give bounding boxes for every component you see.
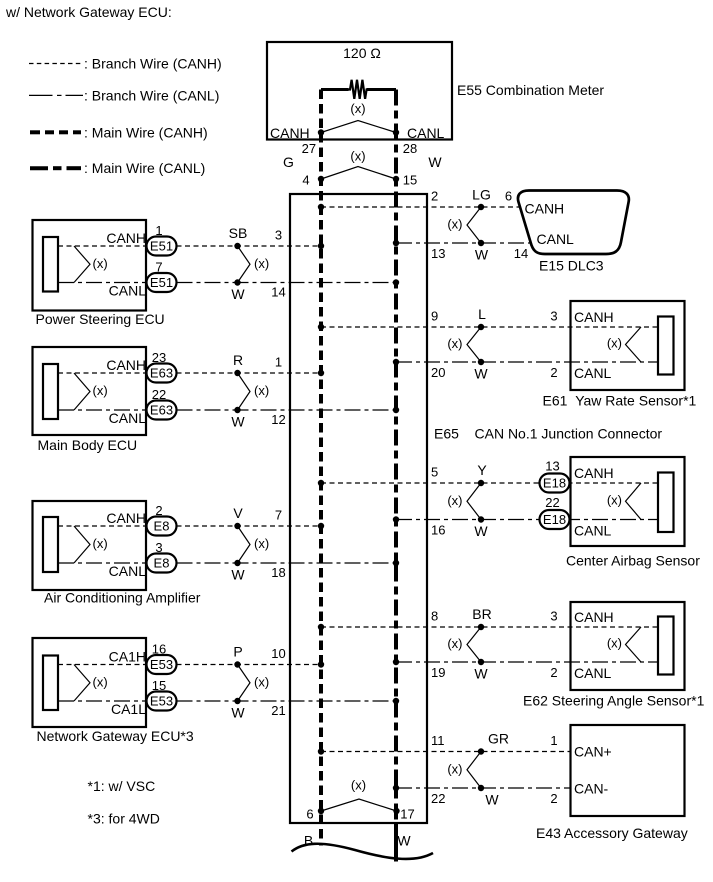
svg-text:28: 28 bbox=[403, 141, 417, 156]
svg-text:15: 15 bbox=[403, 172, 417, 187]
svg-text:W: W bbox=[231, 705, 245, 721]
Center Airbag Sensor box bbox=[571, 457, 685, 546]
svg-text:Power Steering ECU: Power Steering ECU bbox=[36, 311, 165, 327]
svg-text:W: W bbox=[428, 154, 442, 170]
node junction pin 3 bbox=[318, 243, 324, 249]
svg-text:CANH: CANH bbox=[525, 201, 565, 217]
svg-text:LG: LG bbox=[472, 187, 491, 203]
branch wire CAN- junction to Accessory Gateway bbox=[396, 787, 570, 789]
svg-text:*1: w/ VSC: *1: w/ VSC bbox=[88, 778, 156, 794]
splice (x) Steering Angle Sensor branch bbox=[447, 624, 484, 665]
svg-text:E61 Yaw Rate Sensor*1: E61 Yaw Rate Sensor*1 bbox=[543, 393, 697, 409]
E15 DLC3 connector shape bbox=[518, 191, 629, 255]
svg-text:CANL: CANL bbox=[574, 665, 612, 681]
svg-text:3: 3 bbox=[275, 228, 282, 243]
svg-text:CANL: CANL bbox=[109, 563, 147, 579]
svg-text:*3: for 4WD: *3: for 4WD bbox=[88, 811, 160, 827]
svg-text:13: 13 bbox=[545, 459, 559, 474]
branch wire CANL Main Body ECU to junction bbox=[177, 409, 397, 411]
node junction pin 11 bbox=[318, 748, 324, 754]
svg-text:W: W bbox=[231, 414, 245, 430]
svg-text:(x): (x) bbox=[350, 149, 365, 164]
svg-text:SB: SB bbox=[229, 225, 248, 241]
splice (x) DLC3 branch bbox=[447, 204, 484, 246]
svg-text:(x): (x) bbox=[607, 636, 622, 651]
svg-text:(x): (x) bbox=[93, 383, 108, 398]
svg-text:(x): (x) bbox=[607, 336, 622, 351]
svg-text:CANL: CANL bbox=[574, 523, 612, 539]
node junction pin 20 bbox=[393, 359, 399, 365]
node junction pin 9 bbox=[318, 324, 324, 330]
node junction pin 4 bbox=[318, 176, 324, 182]
svg-text:19: 19 bbox=[431, 665, 445, 680]
svg-text:CANH: CANH bbox=[574, 465, 614, 481]
splice (x) between E55 and junction bbox=[321, 149, 396, 180]
svg-text:3: 3 bbox=[550, 609, 557, 624]
svg-text:14: 14 bbox=[271, 285, 285, 300]
splice (x) Air Conditioning Amplifier branch bbox=[234, 523, 269, 566]
node junction pin 18 bbox=[393, 560, 399, 566]
svg-text:P: P bbox=[233, 644, 242, 660]
branch wire CANH junction to Yaw Rate Sensor bbox=[321, 326, 658, 328]
svg-text:CANH: CANH bbox=[270, 125, 310, 141]
svg-text:1: 1 bbox=[275, 355, 282, 370]
Air Conditioning Amplifier connector bbox=[43, 517, 58, 572]
wire CANL inside Air Conditioning Amplifier bbox=[58, 562, 147, 564]
connector code E18 (CANL) bbox=[540, 510, 570, 529]
node junction pin 21 bbox=[393, 698, 399, 704]
connector code E18 (CANH) bbox=[540, 474, 570, 493]
branch wire CANL junction to Yaw Rate Sensor bbox=[396, 361, 658, 363]
svg-text:L: L bbox=[478, 306, 486, 322]
svg-text:CAN No.1 Junction Connector: CAN No.1 Junction Connector bbox=[475, 426, 663, 442]
wire CANL inside Main Body ECU bbox=[58, 409, 147, 411]
node junction pin 1 bbox=[318, 370, 324, 376]
svg-text:22: 22 bbox=[431, 791, 445, 806]
svg-text:CANL: CANL bbox=[109, 410, 147, 426]
branch wire CA1H Network Gateway ECU to junction bbox=[177, 664, 322, 666]
splice (x) Accessory Gateway branch bbox=[447, 748, 484, 791]
svg-text:W: W bbox=[474, 523, 488, 539]
node junction pin 19 bbox=[393, 659, 399, 665]
legend main wire CANL sample bbox=[30, 166, 81, 170]
svg-text:7: 7 bbox=[275, 508, 282, 523]
svg-text:CANL: CANL bbox=[407, 125, 445, 141]
Main Body ECU box bbox=[33, 347, 147, 435]
connector code E53 (CA1L) bbox=[147, 692, 177, 711]
svg-text:CANH: CANH bbox=[106, 510, 146, 526]
svg-text:8: 8 bbox=[431, 609, 438, 624]
svg-text:CANH: CANH bbox=[574, 609, 614, 625]
legend branch wire CANH sample bbox=[29, 63, 83, 65]
svg-text:12: 12 bbox=[271, 412, 285, 427]
Center Airbag Sensor connector bbox=[658, 473, 674, 533]
svg-text:Main Body ECU: Main Body ECU bbox=[38, 437, 138, 453]
svg-text:E55 Combination Meter: E55 Combination Meter bbox=[457, 82, 604, 98]
branch wire CANL junction to Steering Angle Sensor bbox=[396, 661, 658, 663]
wire CANH inside Power Steering ECU bbox=[58, 245, 147, 247]
Power Steering ECU box bbox=[33, 220, 147, 311]
branch wire CANH Main Body ECU to junction bbox=[177, 372, 322, 374]
svg-text:W: W bbox=[231, 286, 245, 302]
svg-text:CANH: CANH bbox=[106, 230, 146, 246]
svg-text:CA1L: CA1L bbox=[111, 701, 146, 717]
legend main wire CANH sample bbox=[30, 130, 81, 134]
svg-text:2: 2 bbox=[431, 189, 438, 204]
connector code E53 (CA1H) bbox=[147, 655, 177, 674]
Network Gateway ECU box bbox=[33, 638, 147, 727]
svg-text:E51: E51 bbox=[150, 239, 173, 254]
node junction pin 15 bbox=[393, 176, 399, 182]
svg-text:V: V bbox=[233, 505, 243, 521]
svg-text:2: 2 bbox=[550, 791, 557, 806]
Yaw Rate Sensor box bbox=[571, 301, 685, 390]
svg-text:CANH: CANH bbox=[106, 357, 146, 373]
svg-text:E53: E53 bbox=[150, 694, 173, 709]
svg-text:(x): (x) bbox=[93, 674, 108, 689]
connector code E63 (CANH) bbox=[147, 364, 177, 383]
svg-text:(x): (x) bbox=[93, 536, 108, 551]
svg-text:: Branch Wire (CANH): : Branch Wire (CANH) bbox=[84, 56, 222, 72]
svg-text:W: W bbox=[475, 246, 489, 262]
svg-text:E18: E18 bbox=[543, 512, 566, 527]
svg-text:W: W bbox=[231, 567, 245, 583]
connector code E51 (CANH) bbox=[147, 237, 177, 256]
main wire CANL solid tail bbox=[394, 823, 398, 862]
svg-text:E8: E8 bbox=[154, 519, 170, 534]
splice (x) inside Air Conditioning Amplifier bbox=[74, 526, 108, 563]
svg-text:3: 3 bbox=[550, 309, 557, 324]
svg-text:(x): (x) bbox=[254, 256, 269, 271]
svg-text:E51: E51 bbox=[150, 275, 173, 290]
svg-text:(x): (x) bbox=[447, 217, 462, 232]
svg-text:E43 Accessory Gateway: E43 Accessory Gateway bbox=[536, 825, 688, 841]
splice (x) inside Yaw Rate Sensor bbox=[607, 327, 641, 362]
svg-text:G: G bbox=[283, 154, 294, 170]
svg-text:w/ Network Gateway ECU:: w/ Network Gateway ECU: bbox=[5, 4, 172, 20]
svg-text:GR: GR bbox=[488, 731, 509, 747]
connector code E8 (CANH) bbox=[147, 517, 177, 536]
Power Steering ECU connector bbox=[43, 237, 58, 292]
resistor 120 ohm (terminating) bbox=[321, 80, 396, 99]
node E55 CANH bbox=[318, 129, 324, 135]
svg-text:W: W bbox=[474, 366, 488, 382]
svg-text:(x): (x) bbox=[254, 674, 269, 689]
svg-text:CAN-: CAN- bbox=[574, 781, 609, 797]
svg-text:(x): (x) bbox=[447, 493, 462, 508]
wire CANH inside Air Conditioning Amplifier bbox=[58, 525, 147, 527]
svg-text:2: 2 bbox=[550, 365, 557, 380]
svg-text:14: 14 bbox=[514, 246, 528, 261]
svg-text:(x): (x) bbox=[447, 761, 462, 776]
svg-text:13: 13 bbox=[431, 246, 445, 261]
svg-text:CANH: CANH bbox=[574, 309, 614, 325]
svg-text:(x): (x) bbox=[350, 101, 365, 116]
svg-text:(x): (x) bbox=[254, 536, 269, 551]
node junction pin 22 bbox=[393, 785, 399, 791]
svg-text:: Main Wire (CANL): : Main Wire (CANL) bbox=[84, 160, 205, 176]
svg-text:5: 5 bbox=[431, 465, 438, 480]
svg-text:: Main Wire (CANH): : Main Wire (CANH) bbox=[84, 124, 208, 140]
connector code E51 (CANL) bbox=[147, 273, 177, 292]
branch wire CAN+ junction to Accessory Gateway bbox=[321, 751, 570, 753]
splice (x) inside Network Gateway ECU bbox=[74, 665, 108, 702]
splice (x) inside Steering Angle Sensor bbox=[607, 627, 641, 662]
svg-text:W: W bbox=[485, 792, 499, 808]
svg-text:E18: E18 bbox=[543, 476, 566, 491]
splice (x) Center Airbag Sensor branch bbox=[447, 480, 484, 523]
branch wire CANH junction to Steering Angle Sensor bbox=[321, 626, 658, 628]
svg-text:21: 21 bbox=[271, 703, 285, 718]
svg-text:Network Gateway ECU*3: Network Gateway ECU*3 bbox=[37, 728, 194, 744]
splice (x) junction bottom bbox=[321, 778, 397, 811]
connector code E8 (CANL) bbox=[147, 554, 177, 573]
wire CANL inside Power Steering ECU bbox=[58, 282, 147, 284]
svg-text:: Branch Wire (CANL): : Branch Wire (CANL) bbox=[84, 87, 219, 103]
svg-text:6: 6 bbox=[505, 188, 512, 203]
svg-text:CANL: CANL bbox=[574, 365, 612, 381]
svg-text:CANL: CANL bbox=[109, 283, 147, 299]
splice (x) Yaw Rate Sensor branch bbox=[447, 324, 484, 365]
node junction pin 17 bbox=[393, 808, 399, 814]
svg-text:CANL: CANL bbox=[537, 231, 575, 247]
svg-text:4: 4 bbox=[302, 172, 309, 187]
node junction pin 13 bbox=[393, 240, 399, 246]
svg-text:W: W bbox=[397, 833, 411, 849]
svg-text:Air Conditioning Amplifier: Air Conditioning Amplifier bbox=[44, 590, 201, 606]
node junction pin 2 bbox=[318, 204, 324, 210]
svg-text:11: 11 bbox=[431, 733, 445, 748]
svg-text:E63: E63 bbox=[150, 366, 173, 381]
branch wire CANL junction to Center Airbag Sensor bbox=[396, 519, 658, 521]
branch wire CANH junction to Center Airbag Sensor bbox=[321, 482, 658, 484]
Yaw Rate Sensor connector bbox=[658, 317, 674, 375]
svg-text:(x): (x) bbox=[93, 256, 108, 271]
svg-text:CA1H: CA1H bbox=[109, 649, 146, 665]
svg-text:16: 16 bbox=[431, 523, 445, 538]
svg-text:(x): (x) bbox=[351, 778, 366, 793]
splice (x) Network Gateway ECU branch bbox=[234, 661, 269, 704]
branch wire CANH Air Conditioning Amplifier to junction bbox=[177, 525, 322, 527]
splice (x) inside E55 bbox=[321, 101, 396, 132]
svg-text:9: 9 bbox=[431, 309, 438, 324]
connector code E63 (CANL) bbox=[147, 401, 177, 420]
svg-text:BR: BR bbox=[472, 606, 491, 622]
E55 Combination Meter box bbox=[267, 42, 452, 140]
svg-text:(x): (x) bbox=[447, 636, 462, 651]
wire CA1L inside Network Gateway ECU bbox=[58, 700, 147, 702]
Steering Angle Sensor box bbox=[571, 602, 685, 690]
svg-text:6: 6 bbox=[306, 807, 313, 822]
Main Body ECU connector bbox=[43, 364, 58, 419]
splice (x) inside Power Steering ECU bbox=[74, 246, 108, 283]
svg-text:1: 1 bbox=[550, 733, 557, 748]
main wire CANH vertical bbox=[319, 90, 323, 846]
node junction pin 10 bbox=[318, 661, 324, 667]
Network Gateway ECU connector bbox=[43, 656, 58, 711]
wire CA1H inside Network Gateway ECU bbox=[58, 664, 147, 666]
splice (x) inside Center Airbag Sensor bbox=[607, 483, 641, 520]
node junction pin 6 bbox=[318, 808, 324, 814]
node junction pin 14 bbox=[393, 279, 399, 285]
branch wire CANL Air Conditioning Amplifier to junction bbox=[177, 562, 397, 564]
svg-text:E62 Steering Angle Sensor*1: E62 Steering Angle Sensor*1 bbox=[523, 693, 705, 709]
wire CANH inside Main Body ECU bbox=[58, 372, 147, 374]
svg-text:R: R bbox=[233, 352, 243, 368]
splice (x) Main Body ECU branch bbox=[234, 370, 269, 413]
splice (x) inside Main Body ECU bbox=[74, 373, 108, 410]
Air Conditioning Amplifier box bbox=[33, 501, 147, 590]
svg-text:W: W bbox=[474, 666, 488, 682]
legend branch wire CANL sample bbox=[29, 94, 83, 96]
continuation wave bbox=[292, 844, 434, 859]
node junction pin 12 bbox=[393, 407, 399, 413]
svg-text:(x): (x) bbox=[254, 383, 269, 398]
svg-text:E65: E65 bbox=[434, 426, 459, 442]
node junction pin 16 bbox=[393, 516, 399, 522]
branch wire CANH Power Steering ECU to junction bbox=[177, 245, 322, 247]
svg-text:22: 22 bbox=[545, 495, 559, 510]
node E55 CANL bbox=[393, 129, 399, 135]
svg-text:CAN+: CAN+ bbox=[574, 744, 612, 760]
svg-text:E8: E8 bbox=[154, 556, 170, 571]
svg-text:17: 17 bbox=[400, 807, 414, 822]
node junction pin 5 bbox=[318, 480, 324, 486]
svg-text:10: 10 bbox=[271, 646, 285, 661]
branch wire CA1L Network Gateway ECU to junction bbox=[177, 700, 397, 702]
E65 CAN No.1 junction connector box bbox=[290, 194, 427, 823]
splice (x) Power Steering ECU branch bbox=[234, 243, 269, 286]
node junction pin 7 bbox=[318, 523, 324, 529]
Accessory Gateway box bbox=[571, 725, 685, 816]
branch wire CANL Power Steering ECU to junction bbox=[177, 282, 397, 284]
Steering Angle Sensor connector bbox=[658, 617, 674, 675]
svg-text:Y: Y bbox=[477, 462, 487, 478]
svg-text:20: 20 bbox=[431, 365, 445, 380]
svg-text:E53: E53 bbox=[150, 657, 173, 672]
node junction pin 8 bbox=[318, 624, 324, 630]
svg-text:2: 2 bbox=[550, 665, 557, 680]
svg-text:(x): (x) bbox=[447, 336, 462, 351]
svg-text:120 Ω: 120 Ω bbox=[343, 45, 381, 61]
svg-text:18: 18 bbox=[271, 565, 285, 580]
main wire CANL vertical bbox=[394, 90, 398, 862]
branch wire CANH junction to DLC3 bbox=[321, 206, 519, 208]
svg-text:E63: E63 bbox=[150, 403, 173, 418]
svg-text:Center Airbag Sensor: Center Airbag Sensor bbox=[566, 553, 700, 569]
svg-text:E15 DLC3: E15 DLC3 bbox=[539, 258, 604, 274]
branch wire CANL junction to DLC3 bbox=[396, 242, 532, 244]
svg-text:(x): (x) bbox=[607, 492, 622, 507]
svg-text:27: 27 bbox=[302, 141, 316, 156]
